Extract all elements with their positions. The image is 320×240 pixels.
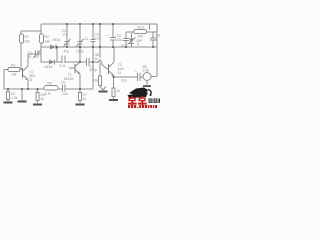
svg-text:270: 270 [62, 33, 68, 37]
svg-text:3AX31: 3AX31 [64, 77, 74, 81]
svg-text:R10: R10 [138, 26, 144, 30]
svg-text:1N34: 1N34 [44, 65, 52, 69]
svg-text:1.5k: 1.5k [11, 96, 18, 100]
svg-text:31: 31 [118, 71, 122, 75]
svg-text:3V: 3V [121, 44, 126, 48]
svg-text:10: 10 [28, 55, 32, 59]
svg-text:10u: 10u [117, 38, 123, 42]
svg-text:C2: C2 [84, 37, 88, 41]
svg-text:47p: 47p [64, 50, 70, 54]
svg-text:1k: 1k [117, 89, 121, 93]
svg-text:500p: 500p [90, 68, 98, 72]
svg-text:10k: 10k [93, 79, 99, 83]
svg-text:31: 31 [29, 78, 33, 82]
svg-text:1k: 1k [95, 57, 99, 61]
svg-text:R9: R9 [48, 81, 52, 85]
svg-text:4k: 4k [41, 97, 45, 101]
svg-text:1: 1 [156, 38, 158, 42]
svg-text:10u: 10u [62, 92, 68, 96]
svg-text:10u: 10u [121, 79, 127, 83]
svg-text:R1: R1 [25, 35, 29, 39]
svg-text:9: 9 [137, 43, 139, 47]
svg-text:1k: 1k [83, 97, 87, 101]
svg-text:14k: 14k [45, 40, 51, 44]
svg-text:+: + [107, 34, 109, 38]
svg-text:C8: C8 [156, 34, 160, 38]
svg-text:10k: 10k [25, 40, 31, 44]
svg-text:0.01: 0.01 [59, 64, 66, 68]
svg-text:C5: C5 [61, 81, 65, 85]
svg-text:4.7k: 4.7k [45, 92, 52, 96]
svg-text:0.01: 0.01 [95, 37, 102, 41]
svg-text:15k: 15k [11, 73, 17, 77]
svg-text:2.5k: 2.5k [143, 69, 150, 73]
svg-text:+: + [135, 70, 137, 74]
svg-text:100p: 100p [76, 50, 84, 54]
svg-text:R3: R3 [11, 64, 15, 68]
svg-text:R2: R2 [45, 35, 49, 39]
svg-text:1N34: 1N34 [52, 38, 60, 42]
svg-text:500: 500 [138, 35, 144, 39]
